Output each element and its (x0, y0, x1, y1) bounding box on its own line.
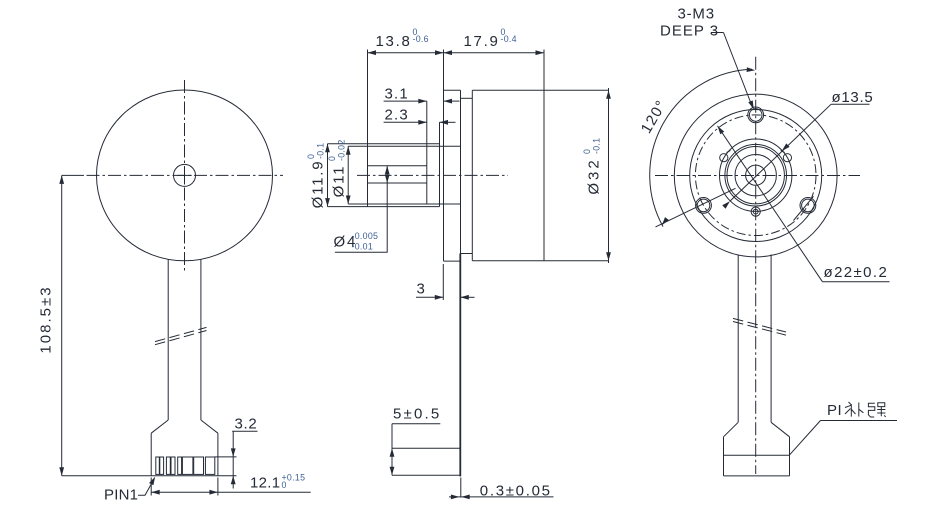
CJK 补 glyph (845, 402, 863, 417)
svg-text:2.3: 2.3 (385, 107, 409, 124)
flange top edge (444, 89, 461, 91)
gearbox sleeve Ø11.9 outline (328, 50, 440, 207)
vertical centerline (184, 80, 186, 272)
dimension 13.8 0/-0.6 (368, 27, 545, 55)
right connector foot (724, 437, 790, 476)
rear outer circle (674, 94, 837, 257)
right connector flare (724, 422, 790, 437)
shaft Ø4 lines (368, 166, 427, 183)
svg-text:3.1: 3.1 (385, 85, 409, 102)
dimension 5±0.5 (390, 406, 460, 476)
dimension 17.9 0/-0.4 (444, 27, 545, 55)
PI stiffener label (790, 402, 898, 455)
svg-text:Ø11: Ø11 (331, 165, 348, 198)
dimension Ø11.9 0/-0.1 (306, 143, 330, 209)
bearing pin upper-right (781, 150, 792, 161)
bearing pin upper-left (720, 150, 731, 161)
dimension Ø11 0/-0.02 (327, 139, 351, 204)
120° radial leg through lower-left hole (656, 188, 736, 227)
bearing plate circle Ø13.5 (720, 139, 792, 211)
bearing pin bottom (751, 207, 760, 216)
right view FPC ribbon (738, 255, 771, 423)
ribbon break symbol (155, 327, 207, 344)
motor rotor outer circle (97, 90, 273, 261)
right view horizontal centerline (655, 175, 860, 177)
M3 hole lower-left (696, 198, 712, 214)
svg-text:DEEP 3: DEEP 3 (660, 23, 719, 40)
PIN1 label and leader (104, 475, 157, 503)
FPC ribbon left edge (167, 260, 169, 421)
dimension Ø4 -0.005/-0.01 (334, 166, 390, 253)
sleeve inner Ø11 lines (348, 146, 460, 204)
bearing circle (735, 155, 776, 196)
svg-text:0: 0 (306, 154, 316, 159)
svg-text:17.9: 17.9 (464, 33, 500, 50)
svg-text:0: 0 (327, 156, 337, 161)
dimension Ø32 0/-0.1 (582, 88, 611, 263)
middle view centerline (357, 174, 508, 176)
hub ring outer (725, 144, 787, 206)
svg-text:Ø32: Ø32 (586, 157, 603, 194)
shaft circle (746, 165, 766, 185)
svg-text:3.2: 3.2 (235, 415, 258, 432)
FPC side view (thick) (459, 254, 461, 477)
dimension 12.1 +0.15/0 (151, 473, 311, 496)
bolt circle Ø22 (dash-dot) (695, 115, 816, 236)
right ribbon break symbol (733, 318, 786, 335)
M3 hole top (748, 107, 764, 123)
flange front face (443, 50, 445, 262)
svg-text:ø22±0.2: ø22±0.2 (824, 264, 889, 281)
svg-text:12.1: 12.1 (250, 475, 280, 492)
svg-text:108.5±3: 108.5±3 (38, 285, 55, 353)
FPC end extension (460, 478, 462, 498)
Ø22±0.2 label and leader (716, 125, 890, 282)
svg-text:3: 3 (417, 281, 427, 298)
can neck top (461, 97, 473, 99)
can rear face (543, 50, 545, 261)
svg-text:-0.005: -0.005 (352, 231, 379, 241)
dimension 3.2 (215, 415, 258, 488)
svg-text:-0.01: -0.01 (352, 241, 374, 251)
dimension 2.3 (384, 107, 456, 125)
svg-text:Ø11.9: Ø11.9 (310, 160, 327, 209)
horizontal centerline (87, 174, 284, 176)
can front seam (471, 90, 473, 260)
svg-text:PI: PI (827, 402, 842, 419)
svg-text:-0.1: -0.1 (316, 143, 326, 159)
dimension 0.3±0.05 (449, 482, 554, 499)
can top edge w/ extension (472, 89, 609, 91)
center shaft hole (174, 164, 196, 186)
svg-text:ø13.5: ø13.5 (832, 89, 874, 106)
svg-text:PIN1: PIN1 (104, 486, 138, 503)
svg-text:-0.1: -0.1 (592, 138, 602, 154)
svg-text:-0.4: -0.4 (501, 34, 517, 44)
svg-text:-0.6: -0.6 (413, 34, 429, 44)
3-M3 DEEP 3 label (660, 5, 756, 110)
connector foot outline (62, 433, 237, 476)
can bottom edge w/ extension (472, 260, 609, 262)
connector pins (156, 457, 215, 474)
M3 hole right (794, 196, 816, 220)
hub ring inner (727, 147, 784, 204)
Ø13.5 label and diameter leader (722, 89, 873, 209)
svg-text:3-M3: 3-M3 (678, 5, 715, 22)
CJK 强 glyph (868, 403, 885, 417)
flange boss circle (690, 110, 822, 242)
svg-text:-0.02: -0.02 (337, 139, 347, 161)
FPC ribbon right edge (200, 259, 202, 420)
svg-text:0: 0 (582, 149, 592, 154)
dimension 3 (flange thickness) (416, 264, 475, 300)
connector flare (151, 420, 218, 433)
dimension 108.5±3 (38, 175, 85, 475)
svg-text:13.8: 13.8 (376, 33, 412, 50)
flange rear face (460, 90, 462, 253)
svg-text:0: 0 (282, 480, 287, 490)
sleeve rim line (439, 122, 441, 206)
sleeve end cap (426, 101, 428, 204)
can neck bottom (461, 253, 473, 255)
120° dimension arc (638, 67, 756, 227)
dimension 3.1 (384, 85, 460, 103)
flange bottom edge (444, 260, 461, 262)
svg-text:0.3±0.05: 0.3±0.05 (480, 482, 552, 499)
svg-text:5±0.5: 5±0.5 (393, 406, 441, 423)
right view vertical centerline (755, 57, 757, 474)
